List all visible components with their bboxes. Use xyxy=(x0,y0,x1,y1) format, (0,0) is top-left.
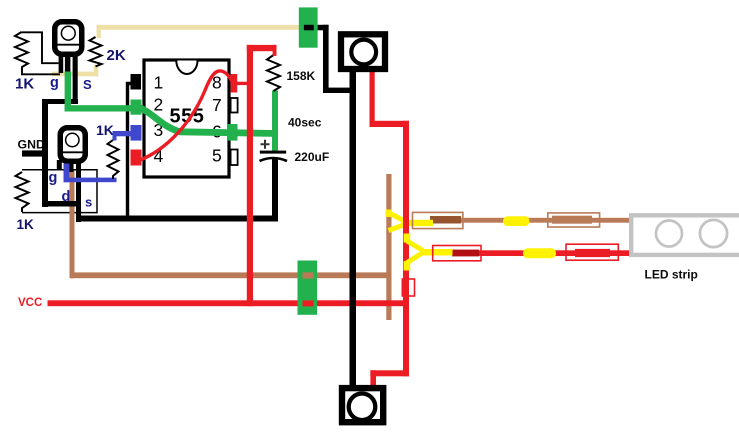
svg-text:1K: 1K xyxy=(17,217,35,232)
svg-text:5: 5 xyxy=(212,146,222,166)
pin 3 pad xyxy=(131,125,142,141)
svg-text:2K: 2K xyxy=(107,47,126,64)
jack J1 circle xyxy=(351,40,376,65)
transistor Q2 body divider xyxy=(61,151,86,153)
crimp connector red outline 2 xyxy=(566,244,618,260)
pin 8 pad xyxy=(231,74,238,93)
wire ground bottom horizontal xyxy=(76,216,277,222)
resistor R1 1K top-left xyxy=(15,32,28,70)
svg-text:S: S xyxy=(83,77,92,92)
terminal block green top xyxy=(299,7,318,47)
capacitor C1 plus sign xyxy=(261,140,270,149)
transistor Q2 body xyxy=(60,128,85,162)
wire black terminal drop vertical xyxy=(323,25,329,93)
splice solder yellow brown lower diagonal xyxy=(389,224,407,231)
svg-text:VCC: VCC xyxy=(18,297,42,309)
svg-text:g: g xyxy=(49,170,58,186)
svg-text:158K: 158K xyxy=(287,69,316,83)
svg-text:LED strip: LED strip xyxy=(645,268,698,282)
wire red top stub to 158K xyxy=(247,45,277,51)
svg-text:GND: GND xyxy=(18,137,45,151)
wire blue R4 top stub xyxy=(113,131,117,141)
splice solder yellow on red vertical upper xyxy=(404,234,411,243)
transistor Q1 gate leg xyxy=(59,56,64,73)
wire red 158K top stub xyxy=(273,45,277,56)
wire Q2 source to ground bus xyxy=(42,201,81,207)
wire thin from R1 top to Q1 gate xyxy=(22,32,59,63)
wire brown dash inside terminal xyxy=(303,272,314,278)
svg-text:2: 2 xyxy=(154,95,164,115)
splice solder yellow red lower diagonal xyxy=(407,253,424,264)
pin 1 pad xyxy=(131,74,142,90)
svg-text:s: s xyxy=(85,194,92,209)
transistor Q2 gate leg xyxy=(57,160,62,170)
svg-text:1: 1 xyxy=(154,73,164,93)
splice solder yellow red upper diagonal xyxy=(407,241,423,251)
IC U1 notch xyxy=(176,61,197,75)
wire yellow horizontal red circuit xyxy=(421,249,453,256)
transistor Q1 body xyxy=(55,22,82,55)
wire beige 2K top vertical xyxy=(97,25,101,38)
crimp connector brown outline 2 xyxy=(548,213,600,227)
svg-text:7: 7 xyxy=(212,95,222,115)
pin 2 pad xyxy=(131,100,142,115)
wire brown to LED strip xyxy=(458,218,629,223)
transistor Q2 drain leg xyxy=(69,160,74,172)
wire red vertical timing rail xyxy=(247,45,253,306)
connector small red outline on vertical xyxy=(402,279,414,296)
wire black dash inside top terminal xyxy=(304,25,314,31)
wire Q1 source to ground bus xyxy=(44,99,78,104)
splice solder yellow on red vertical lower xyxy=(404,261,411,271)
wire red vertical over yellow crossing xyxy=(403,217,409,229)
wire Q2 source leg down xyxy=(76,162,81,222)
wire blue R4 top to 555 pin3 xyxy=(113,131,134,136)
wire red VCC horizontal xyxy=(48,300,410,306)
wire black jog to main rail xyxy=(323,88,353,93)
transistor Q1 body divider xyxy=(56,44,82,46)
transistor Q1 source leg xyxy=(73,56,78,104)
wire red to LED strip xyxy=(477,250,629,256)
jack J1 top square xyxy=(341,34,385,69)
wire black main vertical rail xyxy=(350,72,357,386)
svg-text:d: d xyxy=(62,189,71,205)
wire brown thick inside crimp xyxy=(430,216,461,224)
pin 5 pad xyxy=(231,150,238,166)
wire brown right vertical xyxy=(386,174,391,320)
transistor Q2 drain brown wire down xyxy=(70,171,75,279)
capacitor C1 top plate xyxy=(260,151,286,154)
wire black from top terminal xyxy=(318,25,329,31)
wire red from jack J1 down xyxy=(370,70,375,127)
splice solder yellow brown upper diagonal xyxy=(389,213,407,223)
heatshrink yellow on brown wire xyxy=(503,216,530,226)
wire red pin8 link xyxy=(237,82,250,85)
jack J2 circle xyxy=(349,394,376,421)
terminal block green bottom xyxy=(298,261,318,315)
heatshrink yellow on red wire xyxy=(523,248,556,258)
wire red dash inside terminal xyxy=(303,300,314,306)
svg-text:g: g xyxy=(50,75,59,91)
transistor Q2 mounting hole xyxy=(66,133,79,146)
wire red elbow horizontal xyxy=(370,121,409,127)
pin 4 pad xyxy=(131,150,142,166)
pin 7 pad xyxy=(231,98,238,113)
resistor R3 158K xyxy=(267,55,280,91)
wire beige from 2K bottom to Q1 gate area xyxy=(52,72,98,77)
IC U1 555 body xyxy=(144,60,229,177)
resistor R2 2K xyxy=(90,37,102,66)
wire red stub into jack J2 xyxy=(370,370,376,386)
wire capacitor negative riser xyxy=(272,158,278,222)
LED strip led 1 xyxy=(656,221,682,247)
wire red bottom elbow xyxy=(370,370,409,376)
svg-text:1K: 1K xyxy=(96,122,114,138)
crimp connector red outline 1 xyxy=(433,246,481,261)
wire green vertical 158K to capacitor xyxy=(272,91,278,154)
svg-text:1K: 1K xyxy=(15,76,34,93)
jack J2 bottom square xyxy=(342,388,383,422)
capacitor C1 bottom plate xyxy=(260,158,288,161)
wire brown lower horizontal xyxy=(70,272,392,278)
wire beige top horizontal to green terminal xyxy=(97,25,299,30)
crimp connector brown outline 1 xyxy=(413,212,463,228)
pin 6 pad xyxy=(227,124,238,141)
wire green Q1 drain vertical xyxy=(65,72,71,112)
wire red curve pin4 to pin8 xyxy=(139,71,232,161)
resistor R5 1K bottom-left xyxy=(16,172,29,212)
wire red thick inside crimp 2 xyxy=(575,249,610,257)
thin box gate-source loop of Q2 xyxy=(22,170,97,213)
LED strip led 2 xyxy=(700,220,727,247)
wire thin from R1 bottom right xyxy=(22,70,60,75)
wire GND stub xyxy=(22,150,47,156)
wire yellow horizontal brown circuit xyxy=(403,220,433,226)
wire blue gate horizontal to R4 xyxy=(64,178,117,183)
transistor Q1 drain leg xyxy=(65,56,71,74)
wire blue Q2 gate vertical xyxy=(64,164,70,183)
wire ground bus vertical xyxy=(42,99,48,207)
wire beige 2K bottom vertical xyxy=(94,65,99,76)
wire brown thick inside crimp 2 xyxy=(552,216,592,224)
wire red thick inside crimp xyxy=(452,250,479,257)
wire green to 555 pin2 xyxy=(65,105,135,111)
wire green curve pin2 to pin6 xyxy=(137,107,278,134)
svg-text:40sec: 40sec xyxy=(288,115,322,129)
svg-text:220uF: 220uF xyxy=(295,150,330,164)
transistor Q1 mounting hole xyxy=(61,26,75,40)
LED strip body xyxy=(631,215,739,255)
resistor R4 1K middle xyxy=(108,140,119,179)
splice solder yellow on brown vertical xyxy=(386,210,392,218)
wire red long vertical xyxy=(403,121,409,376)
wire black pin1 of 555 down to ground rail xyxy=(128,84,136,219)
